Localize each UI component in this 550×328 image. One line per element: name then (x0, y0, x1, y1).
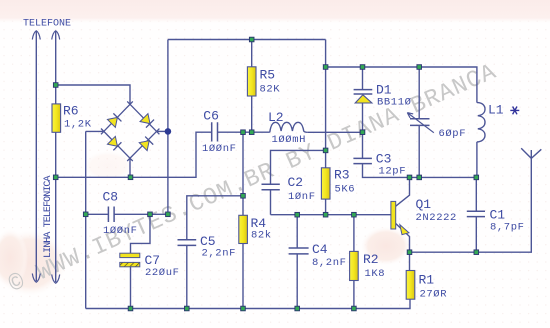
wire rail A top (56, 85, 130, 104)
svg-text:1ØØnF: 1ØØnF (103, 225, 138, 237)
diode D-TL of bridge (107, 113, 121, 127)
resistor R3 (321, 168, 330, 199)
svg-text:L2: L2 (268, 110, 284, 125)
node rail C7 (128, 306, 133, 311)
wire C3 down to base rail (363, 164, 477, 178)
node C1 bottom (474, 250, 479, 255)
node mid left (241, 130, 246, 135)
svg-text:C1: C1 (490, 208, 506, 223)
arrow telephone line 1 top (32, 31, 40, 40)
svg-text:8,7pF: 8,7pF (490, 221, 525, 233)
trimmer 60pF plates (410, 119, 430, 126)
wire y67 rail (326, 67, 477, 103)
node y67 left (323, 65, 328, 70)
svg-text:C3: C3 (376, 151, 392, 166)
svg-text:C2: C2 (288, 175, 304, 190)
svg-text:TELEFONE: TELEFONE (23, 19, 71, 30)
wire R4 net vertical (242, 132, 244, 308)
bridge edge TR (127, 101, 159, 134)
varicap D1 branch (362, 67, 364, 90)
node phone-railB (53, 175, 58, 180)
svg-text:R6: R6 (63, 104, 79, 119)
svg-text:12pF: 12pF (379, 166, 407, 178)
capacitor C8 plates (108, 207, 114, 223)
svg-text:C8: C8 (103, 190, 119, 205)
capacitor C5 plates (178, 240, 197, 246)
resistor R6 (52, 104, 61, 132)
label L1 asterisk (510, 107, 519, 115)
node mid D1 (360, 130, 365, 135)
svg-text:8,2nF: 8,2nF (312, 257, 347, 269)
wire R5 branch (251, 40, 253, 68)
wire C5 net (187, 196, 243, 309)
wire C4 branch (296, 215, 298, 309)
svg-text:Q1: Q1 (416, 197, 432, 212)
node rail C5 (185, 306, 190, 311)
wire C1 branch (475, 177, 477, 252)
node base R3 (323, 212, 328, 217)
antenna (521, 148, 541, 158)
wire C8 leads (86, 213, 168, 215)
wire rail B lower (56, 132, 212, 177)
node collector rail (407, 175, 412, 180)
resistor R2 (350, 251, 359, 280)
junction squares (53, 37, 478, 311)
node R5 top (249, 37, 254, 42)
resistor R4 (239, 215, 248, 243)
wire emitter rail y252 (410, 158, 532, 252)
node y67 D1 (360, 65, 365, 70)
svg-text:27ØR: 27ØR (420, 288, 448, 300)
bridge edge BR (127, 129, 159, 161)
svg-text:C4: C4 (312, 242, 328, 257)
svg-text:1ØnF: 1ØnF (288, 191, 316, 203)
node rail R4 (241, 306, 246, 311)
node base R2 (352, 212, 357, 217)
node C8 left (83, 212, 88, 217)
node rail C4 (295, 306, 300, 311)
svg-text:R2: R2 (363, 252, 379, 267)
inductor L2 (270, 122, 308, 132)
svg-text:82k: 82k (251, 229, 272, 241)
node C8-C7 (148, 212, 153, 217)
wire C2 bottom (270, 190, 272, 215)
trimmer branch top (418, 67, 420, 119)
wire C2 top net (271, 150, 326, 184)
node base C4 (295, 212, 300, 217)
svg-text:5K6: 5K6 (335, 183, 356, 195)
node C2-R3 (323, 148, 328, 153)
svg-text:2,2nF: 2,2nF (202, 247, 237, 259)
trimmer 60pF arrow (407, 113, 434, 133)
bridge rectifier diamond (101, 101, 159, 161)
bridge edge TL (101, 101, 133, 134)
wire base rail y215 (271, 214, 392, 216)
wire top rail y39 (168, 39, 326, 41)
transistor Q1 collector (396, 177, 410, 206)
svg-text:22ØuF: 22ØuF (145, 267, 180, 279)
node phone-railA (53, 83, 58, 88)
svg-text:LINHA TELEFONICA: LINHA TELEFONICA (43, 175, 54, 258)
inductor L1 (477, 103, 485, 142)
svg-text:1K8: 1K8 (365, 268, 386, 280)
svg-text:BB11Ø: BB11Ø (377, 96, 412, 108)
wire D1 to C3 (362, 103, 364, 158)
varicap D1 plates (354, 90, 373, 94)
wire C7 net (131, 214, 151, 308)
wire phone line left (35, 32, 37, 282)
capacitor C3 plates (353, 158, 372, 163)
wire bridge left stub (86, 130, 104, 132)
bridge edge BL (101, 129, 133, 162)
diode D-TR of bridge (140, 114, 154, 128)
capacitor C4 plates (289, 248, 309, 254)
svg-text:82K: 82K (260, 84, 281, 96)
diode D-BL of bridge (107, 136, 121, 150)
wire phone line right (55, 32, 57, 283)
node L1 bottom (474, 175, 479, 180)
arrow line 2 bottom (52, 275, 60, 284)
wire R2 branch (353, 215, 355, 309)
capacitor C2 plates (262, 184, 280, 190)
node dot bridge + output (165, 128, 172, 135)
resistor R5 (247, 67, 256, 96)
wire vertical x168 (167, 40, 169, 215)
wire L1 to junction (476, 142, 478, 178)
transistor Q1 emitter (396, 224, 410, 253)
capacitor C6 plates (212, 122, 218, 141)
capacitor C7 negative hatched bar (120, 262, 140, 266)
wire R1 top (409, 252, 411, 270)
node bridge bottom (128, 175, 133, 180)
wire bottom rail (86, 299, 410, 308)
svg-text:R3: R3 (334, 167, 350, 182)
svg-text:6ØpF: 6ØpF (439, 128, 467, 140)
svg-text:L1: L1 (488, 102, 504, 117)
svg-text:1ØØnF: 1ØØnF (202, 143, 237, 155)
wire bridge bottom stub (129, 158, 131, 177)
wire L2 to D1 (308, 131, 363, 133)
node rail R2 (352, 306, 357, 311)
node R4 top (241, 194, 246, 199)
capacitor C7 positive bar (120, 253, 140, 257)
wire C8 left vertical (85, 131, 87, 308)
svg-text:C6: C6 (203, 108, 219, 123)
wire R5 to mid (251, 96, 253, 132)
diode D-BR of bridge (139, 137, 153, 151)
node mid R5 (249, 130, 254, 135)
transistor Q1 emitter arrow (400, 225, 409, 235)
node emitter rail (407, 250, 412, 255)
node C8 right end (166, 212, 171, 217)
wire bridge right stub (157, 130, 168, 132)
svg-text:C7: C7 (145, 253, 161, 268)
capacitor C1 plates (467, 211, 485, 216)
arrow telephone line 2 top (52, 31, 60, 40)
wire mid net C6-L2 (218, 131, 270, 133)
node trimmer bottom (417, 175, 422, 180)
node y67 trimmer (417, 65, 422, 70)
trimmer branch bottom (418, 125, 420, 177)
transistor Q1 base bar (391, 201, 396, 229)
svg-text:D1: D1 (376, 82, 392, 97)
varicap D1 triangle (355, 95, 372, 103)
svg-text:R1: R1 (419, 272, 435, 287)
svg-text:2N2222: 2N2222 (416, 212, 457, 224)
svg-text:R5: R5 (260, 68, 276, 83)
svg-text:1ØØmH: 1ØØmH (272, 134, 307, 146)
svg-text:1,2K: 1,2K (64, 119, 92, 131)
resistor R1 (406, 271, 415, 300)
arrow line 1 bottom (32, 274, 40, 283)
wire vertical x325 (325, 40, 327, 215)
